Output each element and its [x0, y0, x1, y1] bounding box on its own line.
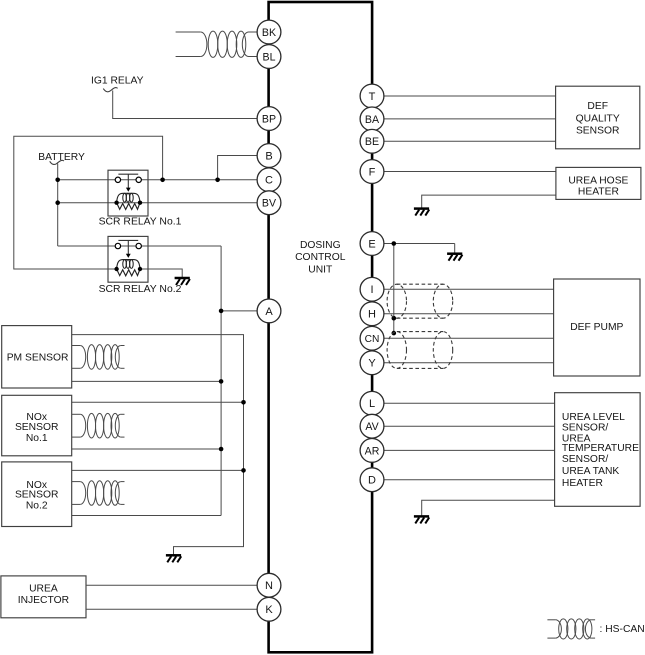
svg-text:No.2: No.2: [26, 500, 48, 511]
svg-text:E: E: [368, 238, 375, 250]
svg-text:UNIT: UNIT: [308, 264, 333, 275]
svg-text:SENSOR/: SENSOR/: [562, 423, 608, 434]
svg-text:L: L: [369, 398, 375, 410]
svg-text:CONTROL: CONTROL: [295, 252, 346, 263]
svg-text:SCR RELAY No.2: SCR RELAY No.2: [99, 284, 182, 295]
svg-text:DEF PUMP: DEF PUMP: [570, 322, 623, 333]
svg-text:Y: Y: [368, 358, 376, 370]
svg-text:B: B: [265, 150, 272, 162]
svg-text:UREA: UREA: [29, 583, 58, 594]
svg-text:UREA TANK: UREA TANK: [562, 466, 620, 477]
svg-text:No.1: No.1: [26, 433, 48, 444]
svg-text:BE: BE: [365, 136, 379, 148]
svg-text:N: N: [265, 580, 273, 592]
svg-text:SENSOR: SENSOR: [15, 422, 59, 433]
svg-text:INJECTOR: INJECTOR: [18, 595, 69, 606]
svg-text:I: I: [370, 284, 373, 296]
svg-text:BV: BV: [262, 198, 277, 210]
svg-text:HEATER: HEATER: [578, 186, 619, 197]
svg-text:A: A: [265, 306, 273, 318]
svg-text:UREA LEVEL: UREA LEVEL: [562, 412, 625, 423]
svg-text:SENSOR: SENSOR: [15, 490, 59, 501]
svg-text:F: F: [369, 166, 376, 178]
svg-text:IG1 RELAY: IG1 RELAY: [91, 76, 144, 87]
svg-text:: HS-CAN: : HS-CAN: [600, 624, 645, 635]
svg-text:H: H: [368, 309, 376, 321]
svg-text:PM SENSOR: PM SENSOR: [7, 352, 69, 363]
svg-text:UREA HOSE: UREA HOSE: [568, 175, 628, 186]
svg-text:BA: BA: [365, 114, 380, 126]
svg-text:QUALITY: QUALITY: [576, 113, 620, 124]
svg-text:CN: CN: [365, 334, 380, 345]
svg-text:D: D: [368, 475, 376, 487]
svg-text:DEF: DEF: [587, 101, 608, 112]
svg-text:BP: BP: [262, 113, 276, 125]
svg-text:BATTERY: BATTERY: [38, 152, 85, 163]
svg-text:HEATER: HEATER: [562, 478, 603, 489]
svg-text:AV: AV: [365, 421, 379, 433]
svg-text:DOSING: DOSING: [300, 240, 341, 251]
svg-text:SENSOR/: SENSOR/: [562, 454, 608, 465]
svg-text:AR: AR: [365, 445, 380, 457]
svg-text:K: K: [265, 604, 273, 616]
svg-text:BK: BK: [262, 27, 276, 39]
svg-text:BL: BL: [263, 51, 276, 63]
svg-text:C: C: [265, 175, 273, 187]
svg-text:SENSOR: SENSOR: [576, 126, 620, 137]
svg-text:T: T: [369, 91, 376, 103]
svg-text:SCR RELAY No.1: SCR RELAY No.1: [99, 217, 182, 228]
svg-text:TEMPERATURE: TEMPERATURE: [562, 443, 639, 454]
